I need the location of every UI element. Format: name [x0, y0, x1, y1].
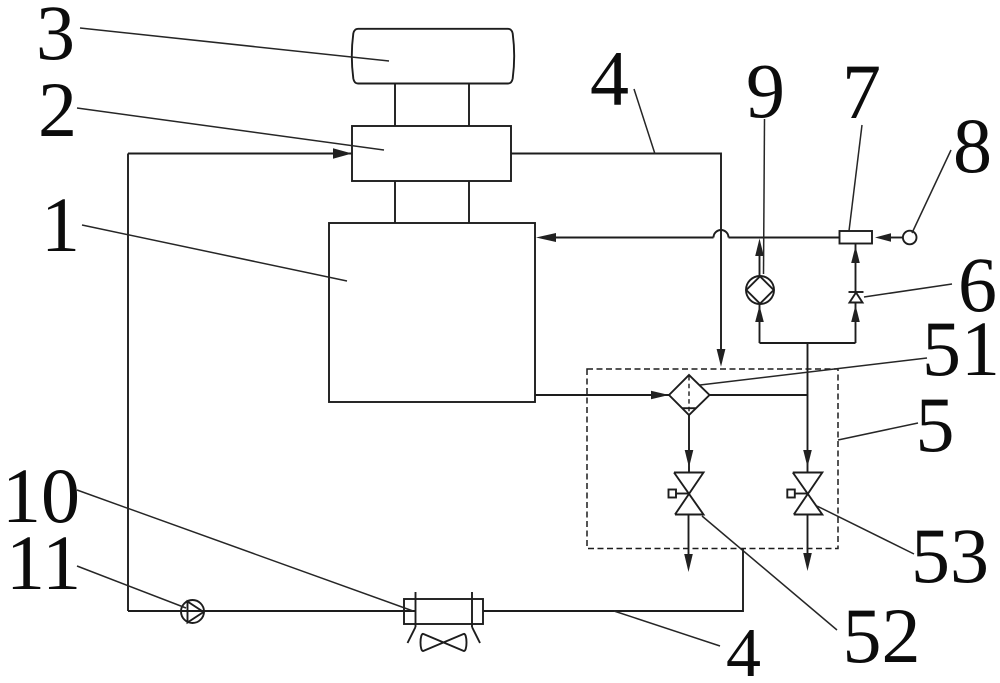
- arrow outlet 53: [803, 553, 812, 571]
- valve 53 body: [793, 473, 823, 515]
- filter 51 centerline: [688, 376, 690, 414]
- arrow up into check valve 6: [851, 305, 860, 322]
- wire filter to junction: [710, 394, 808, 396]
- leader 4 bottom: [614, 611, 720, 646]
- wire block1 to filter 51: [535, 394, 669, 396]
- wire bottom header of pump branch: [760, 342, 856, 344]
- check valve 6 poppet: [850, 293, 863, 303]
- valve 52 actuator square: [669, 490, 677, 498]
- radiator 10 left tube: [415, 592, 417, 627]
- leader 5: [838, 423, 918, 440]
- radiator 10 right leg: [472, 627, 480, 643]
- svg-text:3: 3: [36, 0, 75, 76]
- svg-text:52: 52: [843, 592, 921, 679]
- leader 51: [700, 358, 927, 385]
- wire header down to separator: [807, 343, 809, 473]
- wire valve7 to sensor 8: [890, 237, 903, 239]
- sensor 8: [903, 231, 917, 245]
- pump 11 rotor: [188, 602, 204, 623]
- wire filter down to valve 52: [688, 415, 690, 473]
- filter 51 diamond: [669, 375, 710, 415]
- pipe tank3 to unit2 left: [394, 84, 396, 127]
- leader 3: [80, 28, 389, 61]
- pipe unit2 to block1 left: [394, 181, 396, 223]
- wire pump9 up branch: [759, 252, 761, 276]
- wire left loop top: [128, 153, 352, 155]
- leader 10: [77, 490, 413, 611]
- leader 6: [864, 284, 952, 297]
- arrow down into valve 52: [685, 450, 694, 468]
- check valve 6 seat: [849, 291, 864, 293]
- leader 8: [912, 150, 951, 233]
- leader 52: [702, 516, 837, 630]
- svg-text:4: 4: [726, 615, 761, 683]
- leader 9: [764, 119, 765, 274]
- svg-text:51: 51: [922, 305, 1000, 392]
- pipe hop over riser: [714, 230, 729, 237]
- wire left riser: [127, 154, 129, 612]
- pump 9: [746, 276, 774, 304]
- wire hop to valve 7: [729, 237, 840, 239]
- valve 53 actuator square: [787, 490, 795, 498]
- arrow up into valve 7: [851, 246, 860, 263]
- pump 9 rotor diamond: [746, 276, 773, 303]
- arrow up into main line from pump 9: [755, 239, 764, 257]
- wire main horizontal into block 1: [554, 237, 714, 239]
- wire below pump 9: [759, 304, 761, 343]
- svg-text:5: 5: [916, 381, 955, 468]
- pipe tank3 to unit2 right: [468, 84, 470, 127]
- wire check valve branch upper: [855, 244, 857, 293]
- wire top right run 4: [511, 154, 721, 351]
- valve 7: [840, 231, 873, 244]
- leader 4 top: [634, 89, 655, 154]
- radiator 10 fan: [421, 634, 467, 651]
- valve 53 actuator stem: [795, 493, 808, 495]
- radiator 10 right tube: [471, 592, 473, 627]
- leader 11: [77, 566, 186, 608]
- valve 52 body: [674, 473, 704, 515]
- svg-text:4: 4: [590, 35, 629, 122]
- pump 11: [181, 600, 204, 623]
- leader 1: [82, 225, 347, 281]
- svg-text:8: 8: [953, 102, 992, 189]
- arrow into filter 51: [651, 391, 669, 400]
- wire valve 53 outlet: [807, 515, 809, 555]
- svg-text:7: 7: [842, 48, 881, 135]
- wire valve 52 outlet: [688, 515, 690, 556]
- svg-text:2: 2: [38, 66, 77, 153]
- svg-text:11: 11: [6, 519, 81, 606]
- arrow up into pump 9: [755, 306, 764, 323]
- arrow into valve 7: [875, 233, 891, 242]
- svg-text:1: 1: [41, 181, 80, 268]
- leader 7: [849, 125, 862, 231]
- radiator 10 shell: [404, 599, 483, 624]
- pipe unit2 to block1 right: [468, 181, 470, 223]
- wire check valve branch lower: [855, 303, 857, 344]
- wire bottom right riser: [483, 549, 743, 612]
- arrow outlet 52: [684, 554, 693, 572]
- filter 51 screen chord: [682, 407, 696, 409]
- valve 52 actuator stem: [676, 493, 689, 495]
- arrow into block 1: [536, 233, 556, 242]
- separator dashed box 5: [587, 369, 838, 549]
- svg-text:53: 53: [911, 512, 989, 599]
- radiator 10 left leg: [408, 627, 416, 643]
- arrow down into valve 53: [803, 450, 812, 467]
- svg-text:9: 9: [746, 47, 785, 134]
- tank 3: [352, 29, 514, 84]
- block 1: [329, 223, 535, 402]
- arrow into unit 2: [333, 148, 352, 159]
- leader 53: [817, 506, 914, 554]
- arrow down into separator box: [717, 349, 726, 367]
- unit 2: [352, 126, 511, 181]
- wire bottom left: [128, 610, 416, 612]
- leader 2: [77, 108, 384, 150]
